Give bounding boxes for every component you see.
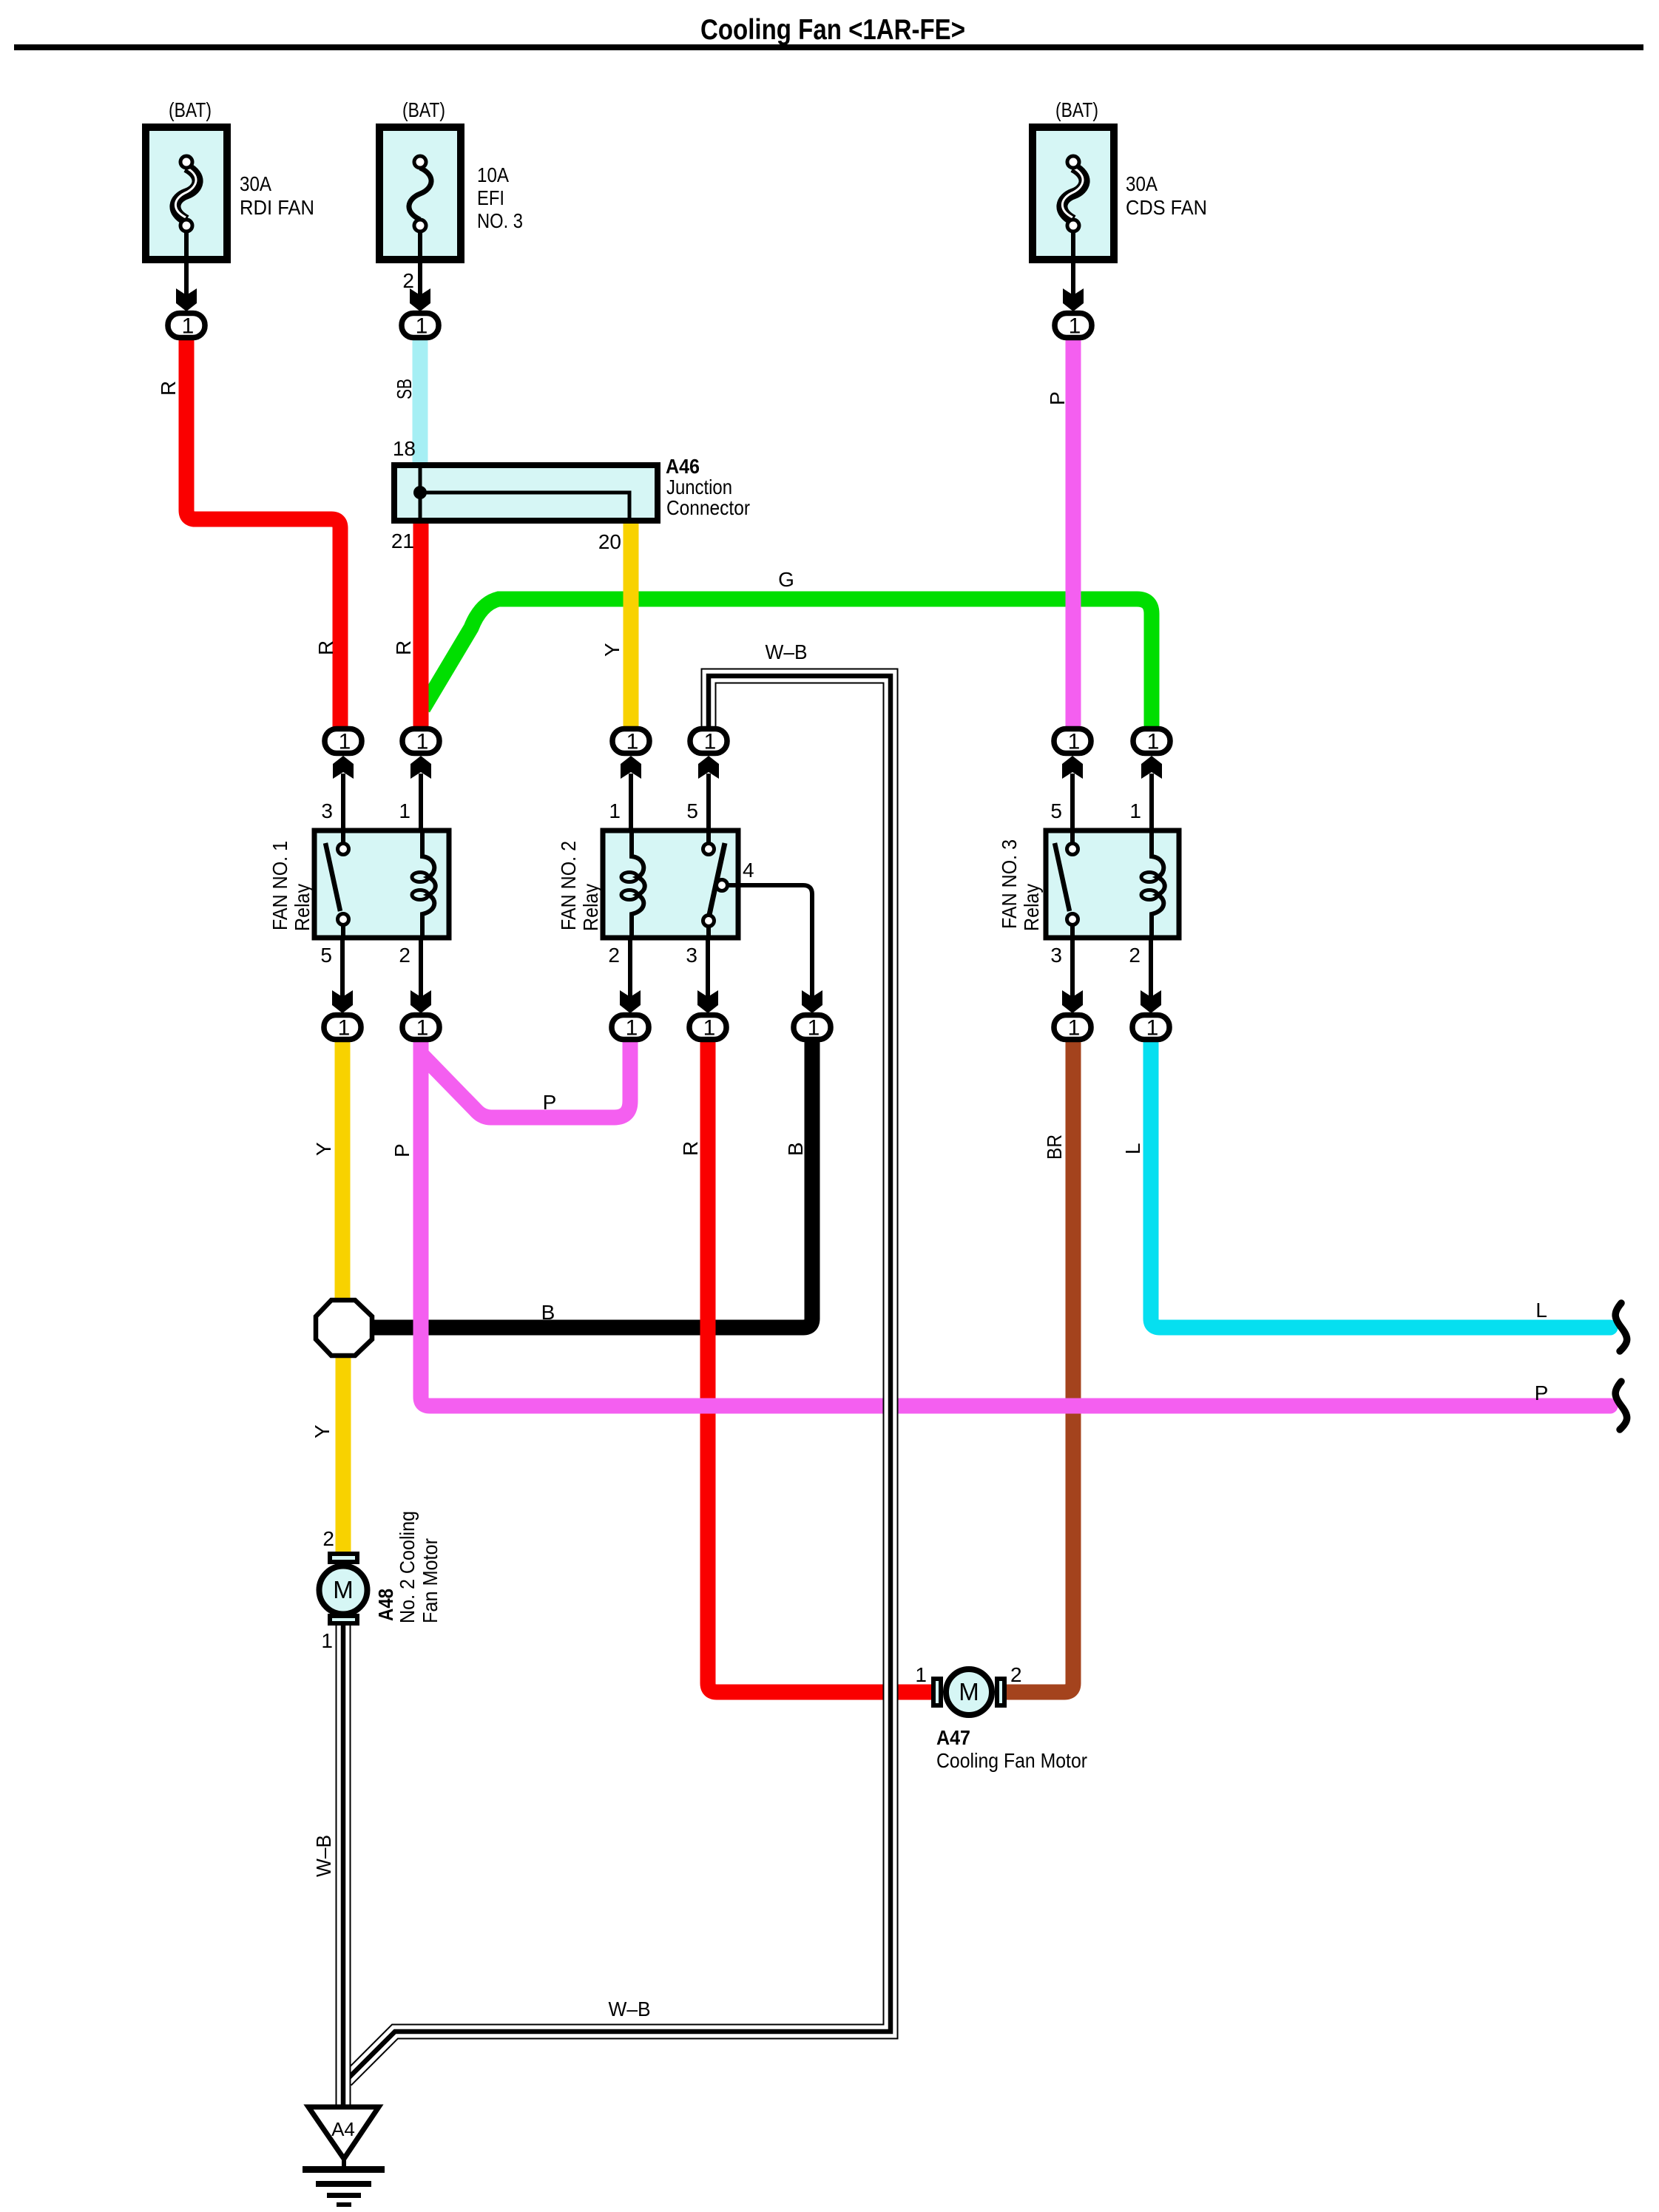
wire P FAN NO.1 relay pin 2 down and to right edge (continuation) [421,1038,1610,1406]
wire R junction A46 pin 21 to FAN NO.1 relay pin 1 [413,519,429,729]
svg-text:FAN NO. 2: FAN NO. 2 [557,841,580,930]
svg-text:20: 20 [598,530,621,553]
wire P from CDS FAN fuse to FAN NO.3 relay pin 5 [1066,337,1081,729]
svg-text:1: 1 [182,314,195,339]
fuse 30A CDS FAN [1033,127,1114,295]
svg-text:RDI FAN: RDI FAN [240,196,314,219]
svg-text:B: B [784,1142,807,1156]
svg-text:G: G [778,568,794,591]
connector arrows into relay top pins [333,756,1162,831]
svg-text:EFI: EFI [477,186,504,209]
svg-text:W–B: W–B [312,1835,335,1877]
relay FAN NO. 1 [314,831,449,938]
svg-text:Relay: Relay [579,884,602,931]
svg-text:18: 18 [393,437,416,460]
svg-text:2: 2 [1129,944,1141,967]
svg-text:3: 3 [686,944,697,967]
svg-text:FAN NO. 3: FAN NO. 3 [998,839,1021,929]
svg-text:1: 1 [1129,799,1141,822]
svg-text:1: 1 [1069,314,1081,339]
svg-text:Junction: Junction [666,476,732,498]
svg-text:(BAT): (BAT) [402,98,445,121]
svg-text:L: L [1121,1143,1144,1154]
wire name W-B top [766,640,808,663]
relay name labels [268,839,1043,931]
wire name L right [1535,1299,1547,1322]
motor A47 Cooling Fan Motor [933,1669,1004,1715]
svg-text:21: 21 [391,530,414,552]
svg-text:1: 1 [626,730,639,754]
wire color labels upper [157,379,1069,657]
svg-text:Y: Y [601,643,624,657]
svg-text:R: R [157,381,180,396]
svg-text:2: 2 [322,1527,334,1550]
connector arrows from fuses [176,288,1084,311]
svg-text:R: R [679,1141,702,1156]
svg-text:2: 2 [399,944,410,967]
wire R FAN NO.2 relay pin 3 to cooling fan motor A47 pin 1 [708,1038,933,1692]
wire name G [778,568,794,591]
svg-text:P: P [543,1091,557,1114]
svg-text:1: 1 [339,730,351,754]
wire SB from EFI NO.3 fuse to junction A46 pin 18 [413,337,428,467]
wire Y junction A46 pin 20 to FAN NO.2 relay pin 1 [624,519,639,729]
fuse 10A EFI NO. 3 [379,127,461,295]
svg-text:Cooling Fan Motor: Cooling Fan Motor [936,1749,1087,1772]
svg-text:Fan Motor: Fan Motor [419,1538,442,1623]
connector arrows out of relay bottom pins [332,938,1161,1013]
svg-text:1: 1 [626,1016,638,1041]
svg-text:M: M [959,1678,979,1705]
svg-text:P: P [391,1143,413,1157]
motor A48 No. 2 Cooling Fan Motor [320,1554,368,1623]
svg-text:1: 1 [808,1016,820,1041]
svg-text:SB: SB [393,379,416,399]
svg-text:Connector: Connector [666,496,750,519]
svg-text:1: 1 [703,1016,716,1041]
svg-text:1: 1 [1068,1016,1081,1041]
svg-text:BR: BR [1043,1134,1066,1160]
svg-text:2: 2 [608,944,620,967]
wire BR motor A47 pin 2 to FAN NO.3 relay pin 3 [1004,1038,1073,1692]
svg-text:CDS FAN: CDS FAN [1126,196,1207,219]
svg-text:1: 1 [704,730,717,754]
title: Cooling Fan <1AR-FE> [14,14,1643,50]
junction connector A46 [394,465,658,521]
svg-text:R: R [314,640,337,655]
svg-text:2: 2 [1010,1663,1022,1686]
svg-text:1: 1 [321,1629,333,1652]
wire W-B motor A48 pin 1 down to ground A4 [336,1624,351,2107]
svg-text:1: 1 [915,1663,927,1686]
wire Y joint octagon to motor A48 pin 2 [336,1353,351,1555]
motor A47 name labels [936,1726,1087,1772]
svg-text:Y: Y [312,1142,335,1156]
svg-text:1: 1 [1068,730,1081,754]
svg-text:5: 5 [320,944,332,967]
svg-text:Cooling Fan <1AR-FE>: Cooling Fan <1AR-FE> [700,14,965,46]
ground A4 [303,2107,385,2207]
motor A48 name labels (rotated) [374,1511,442,1623]
connector ovals (pin 1) [168,314,1170,1041]
wire P branch FAN NO.1 relay pin 2 to FAN NO.2 relay pin 2 [423,1040,630,1117]
wire name P (branch) [543,1091,557,1114]
svg-text:1: 1 [416,1016,429,1041]
svg-text:A4: A4 [331,2118,355,2140]
svg-text:4: 4 [743,859,754,882]
svg-text:A47: A47 [936,1726,970,1749]
wire color labels lower [311,1134,1144,1877]
svg-text:No. 2 Cooling: No. 2 Cooling [396,1511,419,1623]
wire L FAN NO.3 relay pin 2 to right edge (continuation) [1151,1038,1610,1327]
svg-text:3: 3 [321,799,333,822]
svg-text:A48: A48 [374,1589,397,1621]
svg-text:NO. 3: NO. 3 [477,209,523,232]
fuse name labels [240,163,1207,232]
svg-text:Relay: Relay [1020,884,1043,931]
relay FAN NO. 3 [1046,831,1179,938]
svg-text:5: 5 [686,799,698,822]
svg-text:R: R [392,640,415,655]
svg-text:(BAT): (BAT) [169,98,212,121]
svg-text:B: B [541,1301,555,1324]
svg-text:1: 1 [338,1016,351,1041]
svg-text:W–B: W–B [766,640,808,663]
wire W-B from FAN NO.2 relay pin 5 loop over and down to ground A4 [346,676,891,2080]
junction connector A46 labels [666,455,750,519]
svg-text:1: 1 [416,314,428,339]
wire B black: FAN NO.2 relay pin 4 oval down and to joint octagon [370,1038,812,1327]
svg-text:L: L [1535,1299,1547,1322]
relay pin numbers [320,799,1141,967]
svg-text:P: P [1535,1381,1549,1404]
relay FAN NO. 2 [603,831,812,998]
svg-text:1: 1 [416,730,429,754]
svg-text:W–B: W–B [609,1998,651,2020]
svg-text:30A: 30A [240,172,271,195]
wire R from RDI FAN fuse to FAN NO.1 relay pin 3 [186,337,340,729]
pin number labels top section [391,269,621,553]
svg-text:Y: Y [311,1424,334,1438]
wire name B [541,1301,555,1324]
svg-text:10A: 10A [477,163,509,186]
joint octagon (splice) [316,1300,372,1356]
wire G green from FAN NO.1 relay coil to FAN NO.3 relay coil [423,599,1152,729]
continuation break marks [1615,1303,1627,1351]
svg-text:3: 3 [1050,944,1062,967]
svg-text:2: 2 [402,269,414,292]
svg-text:1: 1 [609,799,621,822]
wire name P right [1535,1381,1549,1404]
svg-text:M: M [333,1576,354,1603]
wire name W-B bottom [609,1998,651,2020]
wire Y FAN NO.1 relay pin 5 to joint octagon [335,1038,351,1303]
svg-text:FAN NO. 1: FAN NO. 1 [268,841,291,930]
svg-text:5: 5 [1050,799,1062,822]
fuse 30A RDI FAN [146,127,227,295]
svg-text:1: 1 [1147,730,1160,754]
motor pin labels [321,1527,1021,1686]
svg-text:P: P [1046,391,1069,405]
svg-text:1: 1 [1146,1016,1159,1041]
svg-text:1: 1 [399,799,410,822]
svg-text:A46: A46 [666,455,700,478]
svg-text:30A: 30A [1126,172,1158,195]
svg-text:Relay: Relay [291,884,314,931]
svg-text:(BAT): (BAT) [1055,98,1098,121]
label (BAT) x3 [169,98,1098,121]
